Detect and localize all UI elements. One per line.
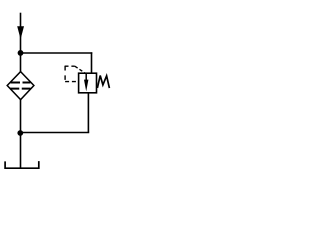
filter element dashed line lower	[10, 88, 31, 90]
filter F1 diamond	[7, 72, 34, 100]
pilot line dashed diagonal	[75, 66, 85, 73]
pilot line dashed vertical	[64, 66, 66, 82]
wire filter to lower dot to tank	[20, 99, 22, 168]
pilot line dashed top horizontal	[65, 65, 75, 67]
filter element dashed line upper	[11, 82, 31, 84]
relief valve flow arrow	[85, 73, 87, 82]
node junction dot upper	[18, 50, 24, 56]
pilot line dashed bottom horizontal	[65, 81, 79, 83]
flow direction arrow on supply lead	[17, 26, 24, 39]
wire supply lead vertical	[20, 13, 22, 53]
relief valve spring	[97, 76, 109, 89]
wire valve outlet drop	[87, 93, 89, 133]
tank T1 reservoir	[5, 161, 39, 168]
relief valve V1 body	[79, 73, 97, 93]
wire drop to valve inlet	[91, 52, 93, 73]
wire top horizontal	[21, 52, 93, 54]
wire bottom horizontal	[21, 132, 90, 134]
wire upper dot to filter	[20, 53, 22, 73]
node junction dot lower	[17, 130, 23, 136]
